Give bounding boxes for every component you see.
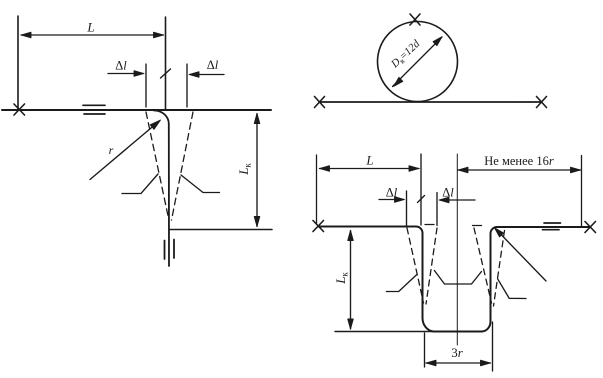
svg-text:Δl: Δl (207, 58, 219, 72)
delta-l right arrowhead (189, 72, 199, 78)
X mark left end of base line (14, 104, 25, 115)
break slash on extension (418, 196, 425, 203)
3r arrowhead left (426, 360, 436, 366)
L_k dimension line (350, 231, 352, 330)
main horizontal base line (2, 109, 271, 111)
L_k arrowhead up (348, 231, 354, 241)
equality mark right part (543, 223, 561, 230)
16r arrowhead right (571, 167, 581, 173)
delta-l right tick (436, 193, 438, 226)
dashed V right leg, right branch (494, 231, 505, 307)
L right extension line with break (420, 154, 422, 225)
L arrowhead right (409, 166, 419, 172)
wire free end vertical line (165, 17, 167, 110)
svg-text:r: r (109, 143, 114, 157)
svg-text:Lк: Lк (236, 163, 253, 176)
3r left extension line (424, 333, 426, 367)
equality mark on base line (83, 105, 105, 114)
X mark right (537, 97, 547, 108)
dimension L line (21, 34, 164, 36)
X mark right end (585, 222, 596, 233)
r leader arrow (90, 126, 154, 180)
dashed V left leg, right branch top dash (425, 224, 434, 226)
svg-text:L: L (86, 20, 94, 35)
middle broken-section callout (434, 271, 481, 285)
right extension line (581, 156, 583, 228)
X mark top of circle (410, 14, 420, 25)
X mark left (315, 97, 325, 108)
delta-l left arrowhead (134, 71, 144, 77)
L_k arrowhead up (254, 114, 260, 124)
dashed V left leg, right branch (426, 228, 437, 304)
right broken-section callout (181, 175, 220, 193)
svg-text:Не менее 16r: Не менее 16r (484, 154, 554, 168)
left broken-section callout (122, 174, 158, 194)
L_k dimension line (256, 114, 258, 227)
delta-l right arrowhead (439, 197, 449, 203)
break ticks on bent wire end (165, 240, 175, 260)
dimension L arrowhead left (21, 32, 31, 38)
dimension L arrowhead right (154, 32, 164, 38)
3r dimension line (426, 362, 491, 364)
3r right extension line (492, 322, 494, 371)
L_k arrowhead down (254, 217, 260, 227)
3r arrowhead right (481, 360, 491, 366)
left vertical reference line (17, 16, 19, 110)
delta-l right arrow (440, 199, 475, 201)
diameter arrowhead upper (433, 37, 442, 46)
svg-text:Δl: Δl (115, 59, 127, 73)
dashed V right leg, left branch top dash (473, 225, 482, 227)
dashed V left leg, left branch (407, 228, 424, 303)
corner leader arrow (499, 232, 547, 281)
dashed V right leg, left branch (474, 228, 492, 303)
bend arc and bent wire going down (154, 110, 169, 266)
bottom reference line (335, 331, 434, 333)
svg-text:L: L (365, 153, 373, 168)
16r arrowhead left (458, 167, 468, 173)
left broken-section callout (386, 275, 416, 292)
delta-l right arrow (190, 74, 224, 76)
dimension L line (320, 168, 420, 170)
bottom reference line (170, 229, 272, 231)
L arrowhead left (320, 166, 330, 172)
right broken-section callout (498, 279, 526, 299)
dashed intermediate position right branch (172, 112, 194, 220)
X mark left end (313, 221, 324, 232)
svg-text:Lк: Lк (333, 272, 350, 285)
base line (320, 101, 542, 103)
wire: base line, U-bend, right base line (318, 227, 589, 332)
circle (378, 22, 458, 102)
svg-text:Dв=12d: Dв=12d (388, 38, 423, 72)
delta-l right tick line (186, 64, 188, 107)
diameter arrow (393, 37, 443, 87)
delta-l left tick (406, 191, 408, 226)
dashed intermediate position left branch (146, 112, 169, 218)
dimension 16r line (458, 169, 581, 171)
delta-l left arrowhead (395, 197, 405, 203)
centre line of U (456, 154, 458, 345)
delta-l left arrow (379, 199, 404, 201)
svg-text:3r: 3r (451, 345, 464, 360)
diameter arrowhead lower (394, 77, 403, 86)
corner leader arrowhead (495, 228, 504, 237)
L_k arrowhead down (348, 319, 354, 329)
r arrowhead (150, 120, 160, 129)
delta-l left tick line (145, 64, 147, 107)
delta-l left arrow (108, 73, 143, 75)
break slash on free end (161, 69, 171, 78)
left extension line (316, 155, 318, 224)
